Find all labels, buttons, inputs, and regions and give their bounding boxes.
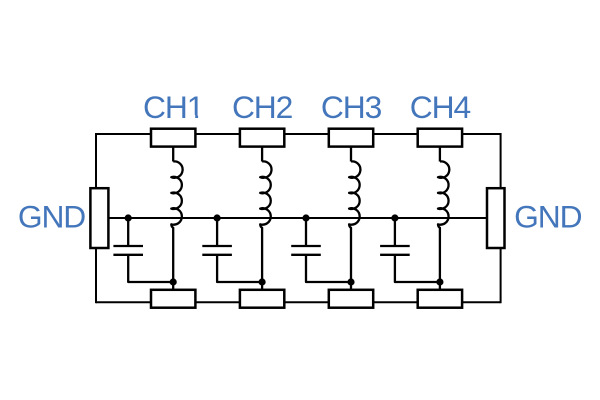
- capacitor C4: [380, 218, 440, 282]
- junction: ground bus to C3: [302, 214, 309, 221]
- resistor RT1 (CH1 series, top rail): [151, 129, 195, 147]
- inductor L4: [438, 161, 449, 282]
- inductor L2: [260, 161, 271, 282]
- wire: RT4 tap to inductor L4: [439, 146, 441, 162]
- wire: right rail (upper segment): [500, 133, 502, 190]
- resistor RB1 (CH1 series, bottom rail): [151, 290, 195, 308]
- svg-text:CH2: CH2: [232, 89, 293, 125]
- inductor L3: [349, 161, 360, 282]
- wire: middle ground bus: [107, 217, 488, 219]
- wire: node N2 to RB2: [261, 282, 263, 291]
- (patch: remove serif foot of digit 1 in CH1): [188, 115, 195, 119]
- wire: RT3 tap to inductor L3: [350, 146, 352, 162]
- wire: left rail (lower segment): [95, 246, 97, 303]
- resistor RT3 (CH3 series, top rail): [329, 129, 373, 147]
- resistor RB2 (CH2 series, bottom rail): [240, 290, 284, 308]
- wire: node N3 to RB3: [350, 282, 352, 291]
- wire: left rail (upper segment): [95, 133, 97, 190]
- resistor RG1 (left GND shunt): [90, 188, 108, 248]
- svg-text:CH4: CH4: [410, 89, 471, 125]
- wire: bottom rail: [96, 301, 501, 303]
- wire: node N1 to RB1: [172, 282, 174, 291]
- junction: node N4 (L4/C4/RB4): [436, 278, 443, 285]
- svg-text:CH3: CH3: [321, 89, 382, 125]
- wire: top rail: [96, 133, 501, 135]
- inductor L1: [171, 161, 182, 282]
- junction: node N1 (L1/C1/RB1): [170, 278, 177, 285]
- resistor RB4 (CH4 series, bottom rail): [418, 290, 462, 308]
- capacitor C3: [291, 218, 351, 282]
- resistor RT2 (CH2 series, top rail): [240, 129, 284, 147]
- svg-text:GND: GND: [18, 198, 85, 234]
- svg-text:GND: GND: [514, 198, 581, 234]
- wire: node N4 to RB4: [439, 282, 441, 291]
- svg-text:CH1: CH1: [143, 89, 204, 125]
- junction: ground bus to C4: [391, 214, 398, 221]
- resistor RG2 (right GND shunt): [487, 188, 505, 248]
- capacitor C1: [113, 218, 173, 282]
- wire: RT1 tap to inductor L1: [172, 146, 174, 162]
- wire: right rail (lower segment): [500, 246, 502, 303]
- resistor RT4 (CH4 series, top rail): [418, 129, 462, 147]
- capacitor C2: [202, 218, 262, 282]
- junction: node N3 (L3/C3/RB3): [347, 278, 354, 285]
- resistor RB3 (CH3 series, bottom rail): [329, 290, 373, 308]
- junction: ground bus to C2: [214, 214, 221, 221]
- junction: ground bus to C1: [125, 214, 132, 221]
- junction: node N2 (L2/C2/RB2): [259, 278, 266, 285]
- wire: RT2 tap to inductor L2: [261, 146, 263, 162]
